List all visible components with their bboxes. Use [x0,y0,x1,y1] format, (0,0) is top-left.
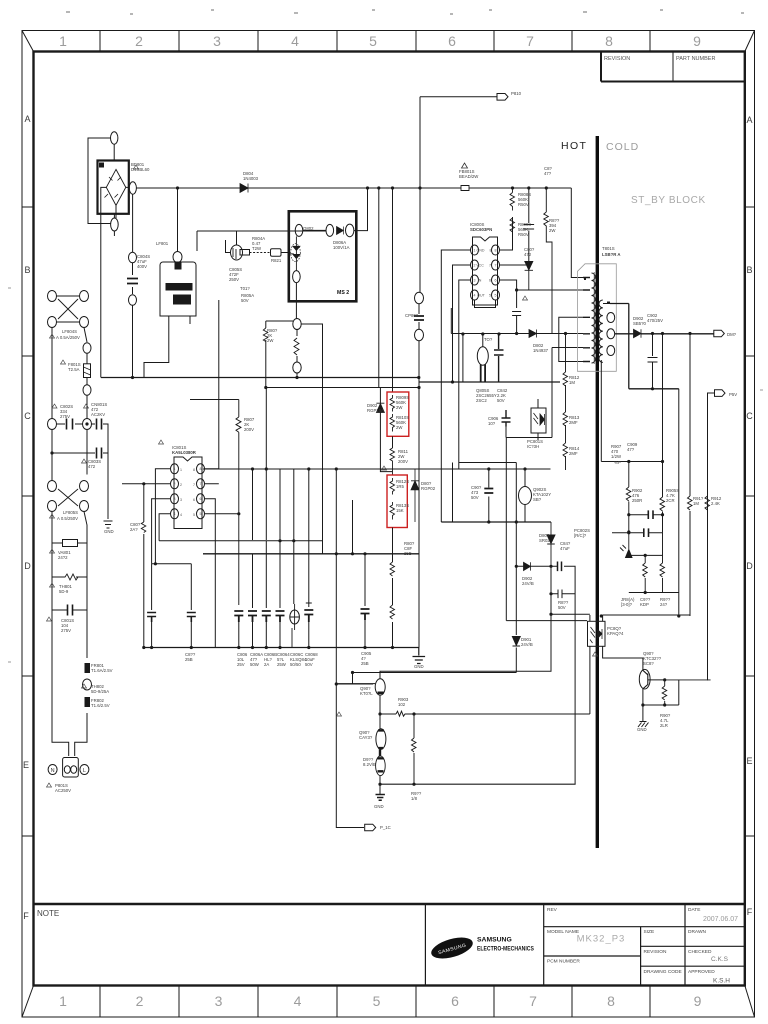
bridge diode marks [105,177,122,198]
connector P bottom [365,824,376,831]
Q805S transistor [477,347,488,365]
wires below LF805S [52,512,87,757]
resistor R811 [390,448,395,475]
ground bus y647.5 [144,647,419,649]
svg-text:7: 7 [495,263,497,267]
corner diagonal bottom-right [745,986,755,1018]
resistor R8x4 [390,562,395,576]
vertical x488.8 [488,469,490,522]
circle x87 y424 [83,419,92,430]
svg-text:8.2V/B: 8.2V/B [363,762,376,767]
svg-text:ELECTRO-MECHANICS: ELECTRO-MECHANICS [477,946,534,953]
svg-text:LF804S: LF804S [62,329,77,334]
svg-text:8: 8 [200,467,202,471]
bus vertical x265.8 [266,321,293,388]
svg-text:2CR: 2CR [666,498,675,503]
wire transformer pin y362.5 snubber [559,317,583,361]
fuse FR802 [85,698,90,707]
svg-text:2W: 2W [396,425,403,430]
top margin tick marks [66,10,744,14]
resistor x664.7 [662,680,667,705]
AC line filter LF804S circles [48,291,89,328]
svg-text:472: 472 [524,252,532,257]
svg-text:5: 5 [369,33,377,49]
cap row y424 wire [57,424,109,519]
svg-text:GND: GND [477,249,485,253]
capacitor C805S bars [127,279,138,284]
svg-text:7: 7 [526,33,534,49]
PC801S opto box [531,408,546,433]
secondary circle pin3 [607,329,615,339]
svg-text:GND: GND [104,529,114,534]
svg-text:2W: 2W [267,338,274,343]
svg-text:REVISION: REVISION [644,949,667,955]
IC801S left pin wires [122,469,171,648]
diode D902 cold [634,329,642,337]
TITLE BLOCK [425,904,744,986]
L circle [80,765,89,775]
warning triangles [47,165,598,787]
circle C805 chain 1 [129,252,137,263]
svg-text:9: 9 [693,33,701,49]
bus vertical left end [100,190,102,378]
bridge small square pin [100,163,104,167]
wire ON/OFF [708,393,715,680]
svg-text:1/2W: 1/2W [611,454,622,459]
left band row ticks [22,207,34,836]
IC801S pin circles left [171,464,179,474]
bus y382 [419,381,560,383]
svg-text:8: 8 [490,249,492,253]
cap C903 [484,489,493,494]
resistor chain x546.3 [544,188,552,334]
LF801 black bar 2 [174,295,191,304]
resistor chain x565.5 R812 R813 R814 [565,334,567,471]
svg-text:IN: IN [478,279,482,283]
vertical x690 [689,334,691,617]
svg-text:SIZE: SIZE [644,929,655,935]
cap row capacitor 3 [262,611,271,622]
resistor R807 x240 [236,400,241,606]
Q903 emitter ground [638,705,649,727]
svg-text:A: A [24,114,30,124]
Q902 marks [378,731,384,749]
LF801 pin square [175,263,181,269]
svg-text:RGP10A: RGP10A [367,408,384,413]
LF805S circles [48,481,89,512]
svg-text:102: 102 [398,702,406,707]
svg-text:SAMSUNG: SAMSUNG [477,937,512,944]
svg-text:SB?: SB? [533,497,542,502]
wire y566.3 [516,566,575,784]
ferrite bead FB801 [461,186,469,191]
IC801S right pin wires [205,300,239,648]
resistor on x265.8 [263,328,268,342]
wire top connector loop [88,138,114,224]
svg-text:CHECKED: CHECKED [688,949,712,955]
svg-text:3: 3 [474,278,476,282]
vertical x266.3 upper [265,388,267,541]
svg-text:5D-9: 5D-9 [59,589,69,594]
svg-text:D: D [746,561,753,571]
svg-text:472: 472 [88,464,96,469]
cap x151 [147,613,156,623]
svg-text:T2.5A: T2.5A [68,367,80,372]
cap on chain [414,316,424,320]
wire LF801 drop from bus [177,188,179,252]
svg-text:REVISION: REVISION [604,56,630,62]
circle cap cross [290,604,299,648]
svg-text:7: 7 [193,483,195,487]
svg-text:PCM NUMBER: PCM NUMBER [547,959,580,965]
transformer primary winding bumps [592,273,596,363]
ground GND label mark [649,704,651,706]
title block small labels [547,907,715,975]
PC802 opto box [588,621,606,646]
resistor x645 [643,555,648,592]
svg-text:1: 1 [180,468,182,472]
IC800S pin numbers [474,248,497,297]
wire R821 to MS2 [281,252,289,254]
svg-text:1: 1 [474,248,476,252]
R804A resistor box [240,250,250,256]
zener D9xx [376,756,386,776]
circle fuse bottom [83,385,91,396]
wire y462.5 [459,462,517,464]
svg-text:ST_BY BLOCK: ST_BY BLOCK [631,195,706,206]
svg-text:HOT: HOT [561,140,587,152]
svg-text:R50V: R50V [518,202,529,207]
second bus y387.5 [266,387,419,389]
svg-text:C: C [746,411,753,421]
svg-text:4: 4 [474,293,476,297]
svg-text:LF805S: LF805S [63,510,78,515]
ground symbol at x418.8 [413,648,426,664]
wire y540 [159,470,322,541]
main B+ bus y377.5 [101,377,419,379]
NOTE separator line [34,903,745,905]
svg-text:25B: 25B [185,657,193,662]
svg-text:2A: 2A [264,662,269,667]
resistor x414 [412,714,417,784]
svg-text:%P: %P [614,460,621,465]
svg-text:K.S.H: K.S.H [713,978,730,985]
circle C805 chain 2 [129,295,137,306]
vertical x252.5 upper [252,469,254,540]
svg-text:T1.6/2.5V: T1.6/2.5V [91,703,110,708]
resistor in red box 2b [390,502,395,520]
svg-text:5: 5 [373,993,381,1009]
svg-text:25W: 25W [277,662,287,667]
svg-text:SR02: SR02 [539,538,550,543]
cap x652.5 [648,334,658,389]
svg-text:A 0.5A/250V: A 0.5A/250V [56,335,80,340]
wire bridge bottom to lower circle [114,205,116,236]
svg-text:A 0.5/250V: A 0.5/250V [57,516,78,521]
cap row capacitor 2 [248,611,257,622]
svg-text:A: A [746,115,752,125]
svg-text:DM?: DM? [727,332,737,337]
svg-text:7: 7 [200,482,202,486]
cap row capacitor 5 [304,610,313,622]
MS2 bold box [289,211,357,301]
vertical x378.8 from bus [379,188,393,472]
PC802 led arrows [590,627,602,643]
svg-text:N: N [51,768,55,774]
svg-text:T801S: T801S [602,246,615,251]
cap row capacitor 1 [234,611,243,622]
cap C842 x499 [494,334,504,382]
svg-text:2MF: 2MF [569,420,578,425]
stby sub-block wire y515 [629,514,663,516]
svg-text:C: C [24,411,31,421]
fuse R802 box [84,364,91,378]
wire y554 junction x336 [335,553,337,555]
PC801S wires [537,399,539,440]
svg-text:BEAD/2W: BEAD/2W [459,174,479,179]
svg-text:2007.06.07: 2007.06.07 [703,916,738,923]
resistor R812 [563,372,568,386]
circle below MS2 [293,319,301,330]
wire y437.5 snubber [506,348,552,438]
wire y672.5 to left [336,673,516,685]
electrolytic circle cap C806C [290,610,300,624]
svg-text:P_1C: P_1C [380,825,391,830]
Q901 marks [378,691,384,694]
Q901 wires top [380,614,551,678]
resistor series y714 [396,711,406,716]
thermistor TH802 circle [83,679,92,690]
svg-text:3: 3 [213,33,221,49]
resistor in red box 1a [390,395,395,412]
svg-text:3: 3 [174,497,176,501]
svg-text:5: 5 [495,293,497,297]
svg-text:7: 7 [529,993,537,1009]
bus y553.8 [203,553,419,555]
svg-text:25B: 25B [404,551,412,556]
svg-text:8: 8 [605,33,613,49]
diode D901 [512,637,520,647]
corner diagonal top-right [745,31,755,52]
svg-text:275V: 275V [61,628,71,633]
IC800S pin circles left [471,245,479,255]
led arrow x628.8 [620,533,632,558]
circle fuse top [83,343,91,354]
svg-text:P5V: P5V [729,392,737,397]
transformer primary pin wires [583,278,590,362]
IC801S body [174,457,202,529]
svg-text:SB5?0: SB5?0 [633,321,647,326]
wire y616 cold [603,614,690,616]
svg-text:IC?3H: IC?3H [527,444,539,449]
cap C802S [67,419,73,430]
svg-text:25B: 25B [361,661,369,666]
circle chain x419 upper [415,292,424,303]
IC801S pin4 u-loop [159,514,170,541]
svg-text:8: 8 [607,993,615,1009]
vertical x452.5 [452,463,454,523]
svg-text:250V: 250V [229,277,239,282]
svg-text:24?2: 24?2 [58,555,68,560]
ruler numbers bottom [59,993,702,1009]
svg-text:1R5: 1R5 [396,484,404,489]
svg-text:1M: 1M [569,380,575,385]
svg-text:CP80?: CP80? [405,313,419,318]
svg-text:2W: 2W [549,228,556,233]
resistor x690 [688,496,693,510]
svg-text:400V: 400V [137,264,147,269]
svg-text:4: 4 [291,33,299,49]
row letters left [23,114,31,921]
svg-text:8: 8 [193,468,195,472]
transformer secondary winding [599,300,603,362]
wire x322.5 upper [301,324,322,540]
svg-text:T2W: T2W [252,246,262,251]
svg-text:E: E [746,756,752,766]
svg-text:DRAWN: DRAWN [688,929,706,935]
MS2 transistor marks [289,236,300,270]
cap small mark x308.8 [306,602,312,604]
svg-text:6: 6 [451,993,459,1009]
svg-text:1: 1 [59,33,67,49]
Q903 marks [643,670,648,689]
left margin faint marks [8,288,763,662]
svg-text:47?: 47? [544,171,552,176]
svg-text:8: 8 [495,248,497,252]
svg-text:SDC603PN: SDC603PN [470,227,492,232]
cap x517 chain [512,312,521,334]
top ruler dividers [100,31,650,52]
svg-text:T01?: T01? [240,286,250,291]
svg-text:T1.6A/2.5V: T1.6A/2.5V [91,668,113,673]
vertical x662.5 [660,334,665,533]
red box 2 [387,475,407,528]
MS2 pin circle 1 [295,224,303,236]
PC802 wires [506,438,643,715]
svg-text:50/50: 50/50 [290,662,301,667]
LF801 bottom pins wires [144,316,190,378]
svg-text:7: 7 [489,264,491,268]
svg-text:6: 6 [193,498,195,502]
svg-text:2: 2 [180,483,182,487]
cap x562 y593.8 [551,566,575,614]
N circle [48,765,57,775]
MS2 inner diode [337,227,344,235]
resistor x707.5 [705,496,710,510]
svg-text:24?: 24? [660,602,668,607]
secondary circle pin4 [607,346,615,356]
svg-text:LSB?R A: LSB?R A [602,252,620,257]
LF801 black bar 1 [166,284,192,291]
svg-text:5: 5 [489,294,491,298]
circle lower [293,362,301,373]
svg-text:2W: 2W [396,405,403,410]
Q805S base wire [463,334,483,382]
right band row ticks [745,207,755,836]
svg-text:E: E [23,760,29,770]
Q901 emitter chain down [379,695,381,794]
svg-text:GND: GND [374,804,384,809]
connector P810 [497,94,508,101]
svg-text:AC2KV: AC2KV [91,412,105,417]
varistor wires [52,542,87,544]
svg-text:MODEL NAME: MODEL NAME [547,929,579,935]
vertical x352.5 Q901 up wire [352,500,354,554]
ruler numbers top [59,33,701,49]
wire y388.8 [629,388,679,390]
PC801S arrows [534,413,545,425]
LF801 box [160,262,196,316]
svg-text:5D-9/25A: 5D-9/25A [91,689,109,694]
resistor R808S chain x512.5 [510,188,515,247]
resistor R8x2 [390,605,395,619]
svg-text:200V: 200V [244,427,254,432]
wire left column x52 [51,328,53,475]
wire bridge lower vertical chain x132.5 [132,194,134,377]
cap C803S [97,448,102,459]
svg-text:COLD: COLD [606,141,639,153]
IC801S pin circles right [197,464,205,474]
transistor Q902S [519,487,532,505]
resistor in red box 1b [390,414,395,432]
circle LF801 top pin [173,252,182,263]
wire transformer pin y347.5 [552,347,583,349]
svg-text:275V: 275V [60,414,70,419]
secondary pin dots [584,279,610,303]
transformer core bars [593,272,595,364]
svg-text:2: 2 [174,482,176,486]
circle chain x419 lower [415,329,424,340]
resistor x662.5b [660,533,665,593]
svg-text:50V: 50V [471,495,479,500]
wire MS2 pin1 from left [197,230,326,251]
Q903 transistor [639,669,650,689]
resistor chain below red box 2 [392,528,394,648]
svg-text:MK32_P3: MK32_P3 [577,934,626,945]
resistor R813 [563,412,568,426]
transformer secondary pins [603,304,610,351]
connector circle lower [111,218,119,231]
svg-text:2LR: 2LR [660,723,668,728]
wire MS2 top right to bus [354,188,368,231]
corner diagonal top-left [22,31,34,52]
svg-text:1N4937: 1N4937 [533,348,549,353]
AC plug pins [64,766,70,774]
svg-text:RGP02: RGP02 [421,486,436,491]
IC800S left pin wires [441,250,495,522]
Q901 transistor [375,679,385,695]
diode D80x x415 [411,469,419,522]
cap chain x528.8 [524,188,535,237]
svg-text:LF801: LF801 [156,241,169,246]
red box 1 [387,392,409,436]
svg-text:KT0?L: KT0?L [360,691,373,696]
svg-text:6: 6 [489,279,491,283]
stby block bottom wire y592.5 [629,592,679,594]
cap y515 [648,510,653,519]
main bus corner into transformer [571,188,583,278]
cap y532 [644,528,649,537]
diode vertical x550.5 [547,522,555,566]
svg-text:1: 1 [59,993,67,1009]
cap C801S [68,605,73,616]
svg-text:1: 1 [174,467,176,471]
resistor R80x 47K [141,522,146,533]
svg-text:R50V: R50V [518,232,529,237]
cap C842b [558,562,562,572]
vertical x516.3 chain [515,463,517,673]
svg-text:DATE: DATE [688,907,700,913]
